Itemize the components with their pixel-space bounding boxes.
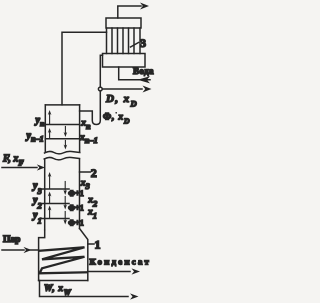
label 3 leader tick — [131, 43, 139, 48]
tray 2 (lower) — [45, 203, 69, 205]
junction node dot — [98, 87, 102, 91]
svg-text:yn–1: yn–1 — [26, 131, 44, 144]
liquid arrow down below tray n-1 — [64, 141, 66, 147]
condenser top header — [106, 18, 141, 28]
svg-text:W, xW: W, xW — [44, 284, 72, 297]
still pot 1 left shoulder — [39, 230, 45, 281]
liquid arrow down through tray 3 — [64, 182, 66, 192]
svg-text:y2: y2 — [32, 195, 42, 211]
condensate arrow — [88, 271, 130, 273]
column upper section right wall — [79, 105, 81, 152]
svg-text:Конденсат: Конденсат — [90, 257, 152, 267]
svg-text:3: 3 — [140, 36, 146, 50]
lower break wavy line — [44, 157, 79, 160]
condenser bottom header — [103, 54, 146, 68]
svg-text:y1: y1 — [32, 210, 42, 226]
svg-text:Ф+1: Ф+1 — [68, 218, 83, 227]
svg-text:Пар: Пар — [3, 235, 20, 245]
cooling water outlet pipe — [118, 6, 141, 18]
condenser U3 tube bundle — [107, 28, 141, 54]
distillate arrow D — [100, 88, 142, 90]
svg-text:F, xF: F, xF — [2, 154, 24, 168]
column upper section left wall — [44, 105, 46, 152]
still pot 1 right shoulder — [80, 229, 88, 281]
cooling water inlet pipe — [119, 67, 150, 80]
svg-text:xn: xn — [80, 119, 91, 131]
feed arrow F — [2, 167, 37, 169]
tray n-1 — [45, 138, 79, 140]
svg-text:x1: x1 — [87, 208, 97, 221]
liquid arrow down through tray 2 — [64, 197, 66, 207]
svg-text:1: 1 — [95, 238, 101, 252]
svg-text:Ф, xD: Ф, xD — [103, 113, 130, 126]
svg-text:Ф+1: Ф+1 — [68, 189, 83, 198]
vapor arrow up (yn) — [49, 114, 51, 124]
liquid arrow down between trays — [64, 127, 66, 134]
svg-text:D, xD: D, xD — [105, 93, 138, 109]
svg-text:xn–1: xn–1 — [79, 133, 98, 145]
liquid arrow down through tray 1 — [64, 212, 66, 222]
bottoms outlet pipe W — [40, 281, 129, 297]
tray 3 (lower) — [45, 188, 69, 190]
svg-text:yn: yn — [35, 115, 45, 128]
svg-text:y3: y3 — [32, 181, 42, 197]
column lower section left wall — [44, 159, 46, 230]
vapor arrow up (yn-1) — [49, 132, 51, 138]
tick y1 — [42, 218, 45, 220]
tray n — [45, 124, 79, 126]
svg-text:Ф+1: Ф+1 — [68, 203, 83, 212]
vapor arrow up y3 — [49, 176, 51, 189]
svg-text:2: 2 — [91, 166, 97, 180]
vapor line column top to condenser — [62, 32, 107, 105]
heating coil — [39, 247, 87, 273]
svg-text:Вода: Вода — [133, 66, 154, 76]
still pot bottom edge — [39, 280, 88, 282]
label 1 leader tick — [88, 243, 94, 245]
label 2 leader tick — [80, 171, 91, 173]
upper break wavy line — [45, 151, 80, 154]
vapor arrow up y2 — [49, 195, 51, 203]
tick y2 — [42, 203, 45, 205]
column top edge — [45, 104, 79, 106]
water inlet arrowhead (points left) — [138, 76, 151, 83]
steam arrow Пар — [2, 249, 24, 251]
reflux line from bottom header down — [80, 55, 103, 124]
column lower section right wall — [79, 159, 81, 229]
label Ф, xD (reflux) — [115, 112, 117, 114]
tray 1 (lower) — [45, 218, 69, 220]
tick y3 — [42, 188, 45, 190]
vapor arrow up y1 — [49, 209, 51, 218]
water outlet arrowhead — [140, 3, 149, 10]
